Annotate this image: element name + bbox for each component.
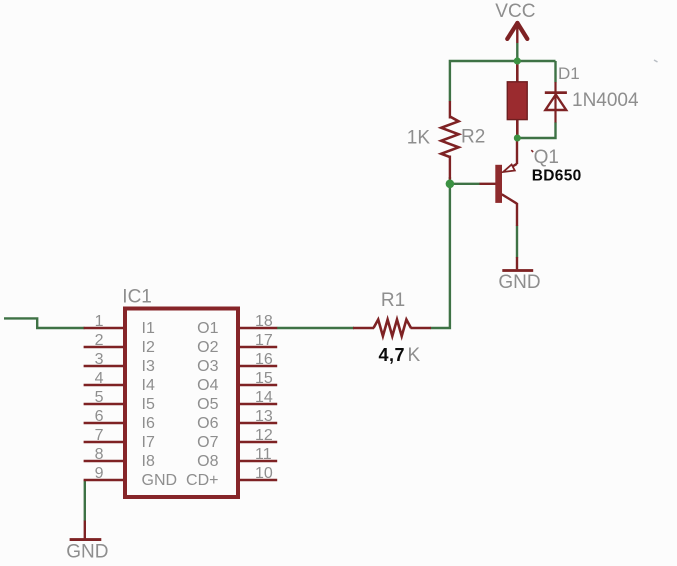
svg-text:6: 6 — [95, 408, 104, 425]
svg-text:I4: I4 — [142, 377, 155, 394]
svg-text:13: 13 — [255, 408, 273, 425]
svg-text:O8: O8 — [197, 453, 218, 470]
svg-text:3: 3 — [95, 351, 104, 368]
svg-text:1K: 1K — [407, 128, 431, 149]
svg-text:5: 5 — [95, 389, 104, 406]
svg-text:O7: O7 — [197, 434, 218, 451]
svg-text:16: 16 — [255, 351, 273, 368]
svg-text:I5: I5 — [142, 396, 155, 413]
svg-text:R1: R1 — [381, 290, 405, 311]
svg-text:15: 15 — [255, 370, 273, 387]
svg-text:4,7: 4,7 — [379, 345, 406, 365]
svg-text:D1: D1 — [558, 64, 580, 83]
svg-text:4: 4 — [95, 370, 104, 387]
svg-text:K: K — [408, 345, 421, 366]
svg-text:14: 14 — [255, 389, 273, 406]
svg-text:18: 18 — [255, 313, 273, 330]
svg-text:10: 10 — [255, 465, 273, 482]
svg-text:O1: O1 — [197, 320, 218, 337]
svg-text:12: 12 — [255, 427, 273, 444]
svg-text:I3: I3 — [142, 358, 155, 375]
svg-text:1N4004: 1N4004 — [572, 90, 639, 111]
svg-text:I8: I8 — [142, 453, 155, 470]
svg-text:O3: O3 — [197, 358, 218, 375]
svg-text:Q1: Q1 — [534, 147, 559, 168]
svg-text:IC1: IC1 — [122, 287, 152, 308]
svg-text:VCC: VCC — [495, 1, 535, 22]
svg-text:I7: I7 — [142, 434, 155, 451]
svg-text:1: 1 — [95, 313, 104, 330]
svg-text:17: 17 — [255, 332, 273, 349]
svg-text:R2: R2 — [461, 127, 485, 148]
svg-text:BD650: BD650 — [532, 168, 582, 185]
svg-text:O6: O6 — [197, 415, 218, 432]
svg-text:GND: GND — [142, 472, 178, 489]
svg-text:O5: O5 — [197, 396, 218, 413]
svg-text:I6: I6 — [142, 415, 155, 432]
svg-text:9: 9 — [95, 465, 104, 482]
svg-text:I2: I2 — [142, 339, 155, 356]
svg-text:8: 8 — [95, 446, 104, 463]
svg-text:11: 11 — [255, 446, 272, 463]
svg-text:GND: GND — [498, 272, 540, 293]
svg-text:GND: GND — [66, 542, 108, 563]
svg-text:2: 2 — [95, 332, 104, 349]
svg-text:7: 7 — [95, 427, 104, 444]
svg-text:O2: O2 — [197, 339, 218, 356]
svg-text:I1: I1 — [142, 320, 155, 337]
svg-text:O4: O4 — [197, 377, 218, 394]
svg-text:CD+: CD+ — [186, 472, 218, 489]
